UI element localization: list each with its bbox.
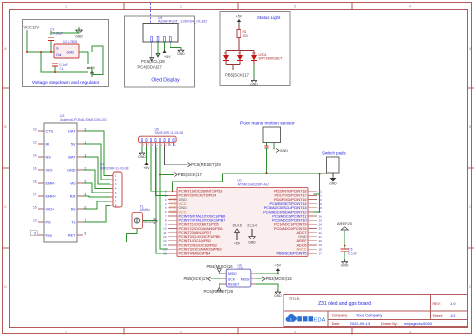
svg-text:D: D (224, 51, 226, 55)
svg-text:EMR-: EMR- (46, 181, 56, 185)
svg-text:17: 17 (33, 193, 37, 197)
svg-text:2022-09-13: 2022-09-13 (350, 321, 371, 326)
svg-text:Sheet:: Sheet: (433, 314, 443, 318)
svg-text:Tx: Tx (71, 220, 75, 224)
svg-text:ADAFRUIT_128X64_OLED: ADAFRUIT_128X64_OLED (158, 19, 207, 24)
svg-text:REV:: REV: (433, 302, 441, 306)
svg-text:19,4,6: 19,4,6 (232, 224, 242, 228)
svg-text:ATMEGA328P-AU: ATMEGA328P-AU (238, 183, 269, 187)
svg-text:GND: GND (250, 82, 258, 86)
svg-text:GND: GND (274, 294, 282, 298)
svg-text:2: 2 (180, 5, 182, 9)
svg-text:+5V: +5V (234, 242, 241, 246)
svg-text:Your Company: Your Company (356, 313, 382, 318)
svg-text:NS: NS (46, 155, 52, 159)
svg-text:17: 17 (319, 251, 323, 255)
svg-text:L7805: L7805 (68, 40, 77, 44)
svg-text:12: 12 (33, 141, 37, 145)
svg-text:13: 13 (33, 219, 37, 223)
svg-text:GND: GND (67, 51, 75, 55)
svg-text:Date:: Date: (332, 322, 341, 326)
svg-text:21,3,4: 21,3,4 (247, 224, 257, 228)
svg-text:1.0: 1.0 (450, 301, 456, 306)
svg-text:U2: U2 (63, 40, 67, 44)
svg-text:DM3CMR-11-03-08: DM3CMR-11-03-08 (100, 166, 129, 170)
svg-text:Switch pads: Switch pads (322, 151, 346, 156)
svg-text:+5V: +5V (236, 15, 243, 19)
svg-text:5V: 5V (71, 142, 76, 146)
svg-text:PB4(MISO)16: PB4(MISO)16 (207, 264, 234, 269)
svg-text:1: 1 (65, 331, 67, 335)
svg-text:Key: Key (46, 233, 53, 237)
svg-text:+5V: +5V (275, 264, 282, 268)
svg-text:Drawn By:: Drawn By: (381, 322, 398, 326)
svg-text:Voltage stepdown and regulator: Voltage stepdown and regulator (32, 80, 100, 86)
svg-text:PC4(SDA)27: PC4(SDA)27 (138, 65, 163, 70)
svg-text:4: 4 (409, 5, 411, 9)
svg-text:GND: GND (67, 168, 76, 172)
svg-text:Poor mans motion sensor: Poor mans motion sensor (240, 121, 295, 127)
svg-text:WP7180RGBCT: WP7180RGBCT (259, 56, 283, 60)
svg-text:TITLE:: TITLE: (289, 297, 300, 301)
svg-text:CTS: CTS (46, 129, 54, 133)
svg-text:15: 15 (33, 206, 37, 210)
svg-text:PB5(SCK)17: PB5(SCK)17 (184, 276, 209, 281)
svg-text:Adafruit-FONA-SIMCOM-3G: Adafruit-FONA-SIMCOM-3G (60, 118, 107, 122)
svg-text:VIO-: VIO- (46, 168, 55, 172)
svg-text:RI: RI (46, 142, 50, 146)
svg-text:DM3CMR-11-03-08: DM3CMR-11-03-08 (155, 131, 184, 135)
svg-text:PB5(SCK)17: PB5(SCK)17 (225, 73, 250, 78)
svg-text:Company:: Company: (332, 314, 348, 318)
svg-text:C1: C1 (60, 67, 64, 71)
svg-text:18: 18 (33, 180, 37, 184)
svg-text:PC6(RESET)29: PC6(RESET)29 (191, 162, 221, 167)
svg-text:GND: GND (248, 241, 256, 245)
svg-text:Out: Out (56, 53, 61, 57)
svg-text:16MHz: 16MHz (140, 208, 151, 212)
svg-text:PC5(SCL)28: PC5(SCL)28 (141, 59, 165, 64)
svg-text:GND: GND (75, 35, 83, 39)
svg-text:Status Light: Status Light (257, 15, 281, 20)
svg-text:Vio: Vio (70, 181, 75, 185)
svg-text:4: 4 (409, 331, 411, 335)
svg-text:EMR+: EMR+ (46, 194, 57, 198)
svg-text:Z31 oled and gps board: Z31 oled and gps board (318, 301, 371, 307)
svg-text:MOSI: MOSI (241, 277, 250, 281)
svg-text:ninjagecko5000: ninjagecko5000 (404, 321, 433, 326)
svg-text:GND: GND (138, 155, 146, 159)
svg-text:10: 10 (33, 128, 37, 132)
svg-text:+5V: +5V (143, 166, 150, 170)
svg-text:1/1: 1/1 (450, 313, 456, 318)
svg-text:E: E (290, 318, 292, 322)
svg-text:PB5/SCK/PCINT5: PB5/SCK/PCINT5 (277, 251, 307, 256)
svg-text:2: 2 (180, 331, 182, 335)
svg-text:MISO: MISO (228, 272, 237, 276)
svg-text:8: 8 (85, 232, 87, 236)
svg-text:GND: GND (177, 52, 185, 56)
svg-text:In: In (56, 47, 59, 51)
svg-text:16: 16 (33, 167, 37, 171)
svg-text:PB3(MOSI)15: PB3(MOSI)15 (266, 276, 293, 281)
svg-text:SCK: SCK (228, 277, 236, 281)
svg-text:3: 3 (294, 5, 296, 9)
svg-text:100: 100 (243, 34, 249, 38)
svg-text:EDA: EDA (314, 317, 326, 323)
svg-text:RESET: RESET (228, 282, 239, 286)
svg-text:11: 11 (33, 232, 37, 236)
svg-text:14: 14 (33, 154, 37, 158)
svg-text:Oled Display: Oled Display (151, 78, 180, 84)
svg-text:DC: DC (252, 51, 256, 55)
svg-text:RET: RET (68, 233, 76, 237)
svg-text:Rst: Rst (70, 194, 77, 198)
svg-text:1: 1 (65, 5, 67, 9)
svg-text:DAT: DAT (68, 129, 76, 133)
svg-text:GND: GND (280, 149, 289, 153)
svg-text:PC6(RESET)29: PC6(RESET)29 (204, 289, 234, 294)
svg-text:AREF20: AREF20 (337, 221, 353, 226)
svg-text:0.1uF: 0.1uF (348, 252, 356, 256)
svg-text:PCINT4/MISO/PB4: PCINT4/MISO/PB4 (179, 251, 212, 256)
svg-text:+5V: +5V (164, 55, 171, 59)
svg-text:PB5(SCK)17: PB5(SCK)17 (178, 172, 203, 177)
svg-text:16: 16 (163, 251, 167, 255)
svg-text:0.33uF: 0.33uF (53, 31, 63, 35)
svg-text:VCC12V: VCC12V (24, 25, 40, 30)
svg-text:PS: PS (46, 220, 52, 224)
svg-text:GND: GND (341, 264, 349, 268)
svg-text:B: B (469, 125, 471, 129)
svg-text:B: B (4, 125, 6, 129)
svg-text:VIO+: VIO+ (46, 207, 56, 211)
svg-text:OSC1/2: OSC1/2 (142, 220, 153, 224)
svg-text:BAT: BAT (68, 155, 76, 159)
svg-text:Rx: Rx (71, 207, 76, 211)
svg-text:D: D (238, 51, 240, 55)
svg-text:VCC: VCC (169, 210, 176, 214)
svg-text:3: 3 (294, 331, 296, 335)
svg-text:GND: GND (329, 182, 337, 186)
